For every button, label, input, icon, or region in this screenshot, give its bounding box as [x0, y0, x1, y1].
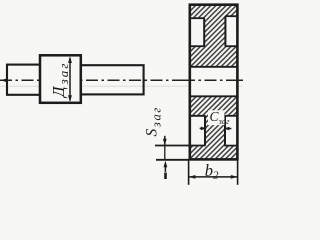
recess top-right	[226, 17, 236, 46]
wire centerline axis	[0, 79, 243, 81]
recess walls	[203, 18, 205, 46]
shaft boss	[40, 55, 81, 103]
label Czag	[208, 110, 224, 125]
bore lines	[189, 66, 238, 68]
dimension Szag extension line upper (recess bottom extended)	[155, 145, 206, 147]
gear blank hatched body	[190, 5, 237, 159]
recess bottom-left	[191, 117, 204, 145]
dimension Dzag line	[69, 58, 71, 101]
recess top-left	[191, 19, 204, 46]
gear outer rect	[190, 5, 238, 160]
dimension b2 line	[189, 176, 237, 178]
node centerline left arrow	[1, 78, 8, 82]
shaft right journal	[81, 65, 144, 94]
wire centerline through gear bore	[183, 79, 243, 81]
recess boundary lines	[189, 17, 205, 19]
bore band	[191, 68, 236, 96]
dimension Czag arrows	[200, 127, 204, 129]
dimension Szag line and arrows	[164, 136, 166, 145]
dimension Szag extension line lower	[156, 159, 189, 161]
dimension b2 extension lines	[188, 161, 190, 185]
shaft left journal	[7, 65, 40, 95]
recess lines bottom half	[189, 115, 206, 117]
recess bottom-right	[226, 117, 236, 145]
